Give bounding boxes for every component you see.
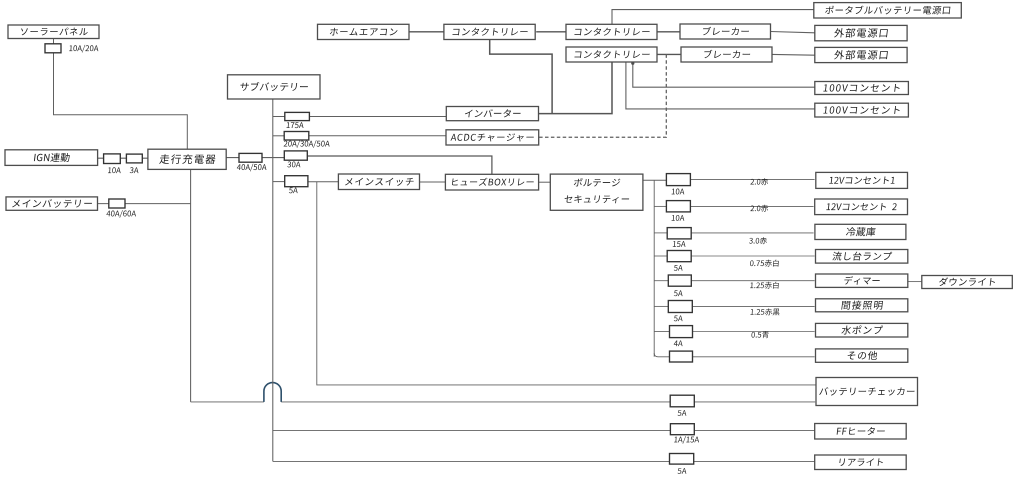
wire stub to 175A fuse [273,116,285,118]
label 40A/60A [106,210,136,218]
label 10A row2 [672,215,685,221]
breaker CB2 [681,47,772,62]
wire relay2 top to portable battery outlet [612,10,814,25]
wire inverter to relay3 bottom [539,62,612,114]
box 100V outlet 1 [815,82,909,95]
label 10A row1 [672,189,685,195]
box FF heater [815,424,907,440]
box rear light [815,455,907,470]
label 4A [674,340,683,346]
fuse F6 175A [285,112,310,120]
wire relay3 to breaker2 [657,53,681,55]
wire charger bottom vertical [190,170,192,402]
wire relay2 to breaker1 [657,31,680,33]
box portable battery outlet [814,3,962,18]
wire breaker2 to ext outlet2 [772,53,815,56]
label 2.0 red row2 [750,205,768,212]
fuse F8 30A [284,151,307,160]
label 3A [130,167,139,173]
contact relay U3 [566,47,657,62]
wire fridge row [691,232,813,234]
wire battery checker top feed [317,182,816,385]
junction dot under contact relay 3 [631,62,634,65]
label 10A [108,167,121,173]
wire fusebox relay to voltage security [539,181,551,183]
label 10A/20A [69,45,99,53]
label 40A/50A [237,164,267,172]
fuse F13 5A [667,251,691,262]
label 5A rear light [678,468,687,474]
fuse F11 10A [666,201,690,212]
label 1.25 red-black row6 [750,308,779,315]
wire stub row8 corner [654,353,669,357]
fuse F18 5A battery checker [670,395,694,407]
label 5A row6 [674,315,683,321]
wire stub row7 [654,331,669,333]
wire indirect light row [692,305,814,307]
box inverter U4 [446,107,538,121]
box fridge [815,224,906,239]
wire stub to 20A/30A/50A fuse [273,135,284,137]
wire 12V outlet2 row [690,205,813,207]
box 12V outlet 2 [815,199,908,215]
fuse F15 5A [668,301,692,313]
wire water pump row [692,331,814,333]
label 5A battery checker [678,410,687,416]
label 5A row5 [674,290,683,296]
wire subbattery vertical trunk [272,99,274,461]
wire stub row5 [654,280,668,282]
label 3.0 red row3 [749,237,767,244]
fuse F10 10A [666,174,690,186]
box 12V outlet 1 [816,172,908,188]
fuse F20 5A rear light [670,454,694,465]
wire 12V outlet1 row [690,179,814,181]
wire other row [692,356,814,358]
wire stub row2 [654,205,666,207]
fuse F9 5A [285,176,308,187]
fuse F7 20A/30A/50A [284,132,309,141]
wire stub row4 [654,255,667,257]
label 2.0 red row1 [750,178,768,185]
fuse F2 10A [104,154,121,164]
label 175A [286,122,303,128]
wire rear light row [273,460,815,462]
wire relay3 to 100V outlet2 [626,62,815,109]
box indirect lighting [816,299,908,312]
wire breaker1 to ext outlet1 [771,32,815,33]
wire home aircon to relay1 [409,31,444,33]
box main switch SW1 [338,174,419,190]
wire dimmer to downlight [908,281,922,283]
wire FF heater row [273,429,815,431]
wire relay1 down to inverter net [490,39,552,113]
box battery checker [816,378,918,406]
contact relay U1 [444,24,535,39]
breaker CB1 [680,24,771,39]
fuse F14 5A [668,275,691,286]
wire relay1 to relay2 [536,31,566,33]
wire 175A fuse to inverter [309,116,446,118]
box solar panel [8,25,99,39]
fuse F3 3A [126,154,142,163]
box dimmer [816,274,908,287]
fuse F5 40A/60A [109,199,125,208]
wire main switch to fusebox relay [420,181,446,183]
wire relay3 to 100V outlet1 [633,62,815,87]
label 5A row4 [674,265,683,271]
box downlight [922,276,1013,289]
box drive charger U6 [148,149,226,169]
fuse F16 4A [670,326,693,338]
box main battery [6,197,98,210]
box external power inlet 2 [815,47,907,62]
wire stub to 5A fuse [273,181,285,183]
box external power inlet 1 [815,25,907,40]
label 30A [287,161,301,167]
fuse F17 spare [670,351,693,362]
wire main battery row [98,203,191,205]
wire stub row6 [654,305,668,307]
box 100V outlet 2 [815,103,909,117]
wire 20A/30A/50A fuse to ACDC charger [309,135,446,137]
label 15A [673,241,686,247]
box sub battery [228,75,321,99]
box voltage security U8 [550,174,643,210]
wire solar panel down-right to charger top [54,39,188,150]
wire 12V fuse column vertical [653,180,655,357]
box IGN interlock [5,150,98,166]
wire dimmer row [691,280,814,282]
box water pump [816,323,908,337]
wire 5A fuse to main switch [308,181,339,183]
fuse F1 solar 10A/20A [45,44,61,53]
fuse F19 1A/15A [670,424,694,435]
wire charger row to battery checker with gap at hop [191,401,816,403]
label 5A [289,187,298,193]
wire voltage security to 12V fuse column [643,179,667,181]
fuse F4 40A/50A [239,153,262,162]
wire IGN row [98,157,148,159]
wire stub row3 [654,232,667,234]
wire charger to 40A/50A fuse to subbattery vertical and 30A fuse [226,157,284,159]
box ACDC charger U5 [446,130,539,145]
fuse F12 15A [667,228,691,239]
contact relay U2 [566,24,657,39]
label 0.75 red-white row4 [750,260,779,267]
label 0.5 blue row7 [751,331,769,338]
box home air conditioner [318,24,410,39]
label 1.25 red-white row5 [750,282,779,289]
box sink lamp [816,250,908,264]
box other loads [816,349,908,362]
label 1A/15A [674,436,699,444]
box fusebox relay U7 [445,174,538,190]
wire sink lamp row [691,255,814,257]
label 20A/30A/50A [284,140,331,148]
wire 30A fuse to fusebox-relay top [307,156,492,174]
wire hop over subbattery vertical [264,383,281,402]
wire dashed AC feed to ACDC charger [539,54,666,137]
